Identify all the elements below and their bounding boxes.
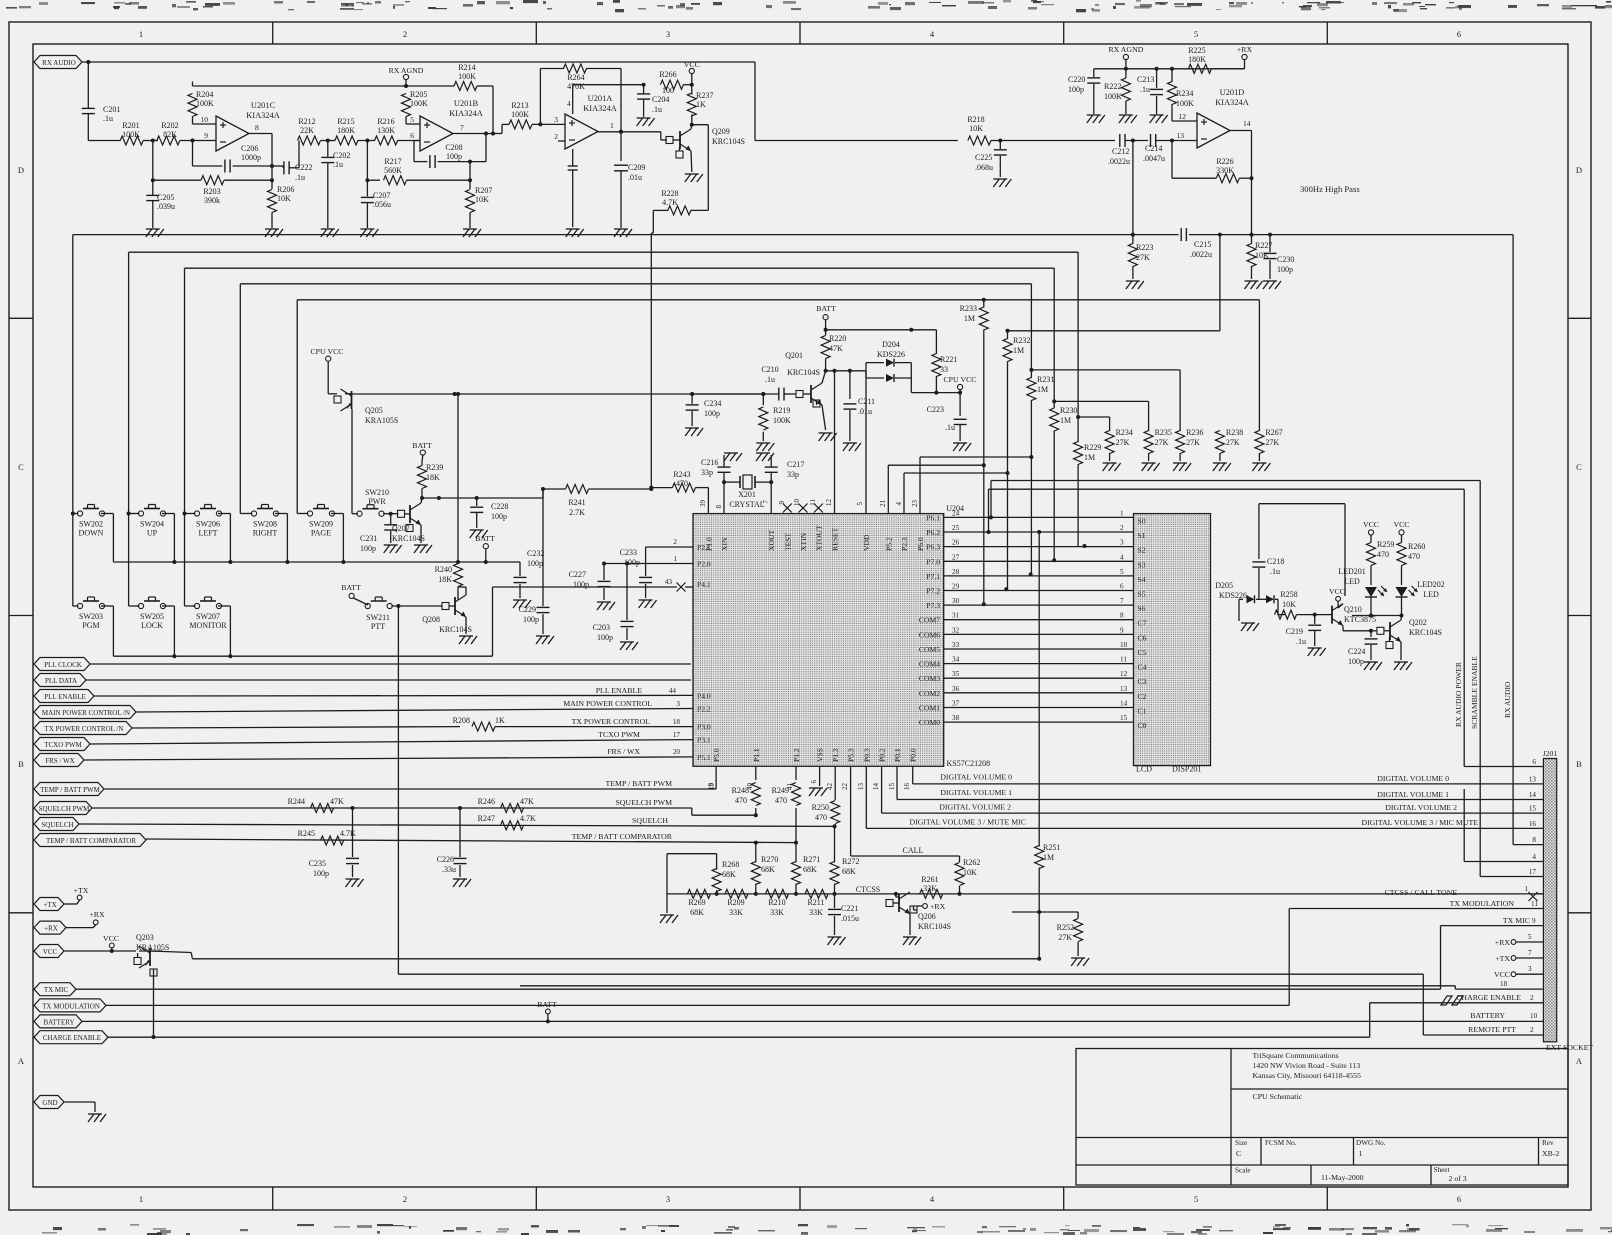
- flag CHARGE ENABLE: [34, 1031, 1370, 1044]
- wire feedback top U201C: [193, 85, 455, 87]
- pin labels bottom cpu: [841, 783, 911, 791]
- svg-text:P0.0: P0.0: [909, 748, 918, 762]
- svg-text:COM4: COM4: [919, 660, 940, 669]
- resistor R215: [335, 117, 358, 145]
- svg-text:SW206: SW206: [196, 520, 220, 529]
- svg-text:C4: C4: [1138, 663, 1147, 672]
- ground C205: [146, 229, 164, 237]
- wire ctcss to pin1: [1385, 885, 1544, 901]
- flag FRS / WX: [34, 754, 84, 767]
- svg-text:P0.1: P0.1: [893, 748, 902, 762]
- wire R239 row: [422, 496, 543, 500]
- svg-text:10: 10: [1120, 641, 1128, 649]
- svg-text:FRS / WX: FRS / WX: [607, 747, 640, 756]
- svg-text:SW210: SW210: [365, 488, 389, 497]
- svg-text:R221: R221: [940, 355, 957, 364]
- resistor R231 1M: [1027, 370, 1054, 576]
- svg-text:SW203: SW203: [79, 612, 103, 621]
- svg-text:6: 6: [1532, 758, 1536, 766]
- pin J201-13: [1529, 775, 1537, 783]
- svg-text:22K: 22K: [300, 126, 314, 135]
- svg-text:C0: C0: [1138, 721, 1147, 730]
- ground R207: [463, 229, 481, 237]
- svg-text:C227: C227: [569, 570, 586, 579]
- svg-text:R234: R234: [1116, 428, 1133, 437]
- svg-text:29: 29: [952, 583, 960, 591]
- resistor R201: [120, 121, 143, 145]
- capacitor C220: [1068, 69, 1105, 123]
- text RX AUDIO POWER vert: [1454, 661, 1463, 727]
- svg-text:68K: 68K: [761, 865, 775, 874]
- capacitor C211: [843, 371, 875, 451]
- op-amp U201A gnd pin: [566, 149, 584, 237]
- ground Q207: [414, 525, 432, 553]
- wire remote ptt right: [1468, 1025, 1534, 1034]
- junction R251 R252: [1012, 912, 1078, 961]
- capacitor C210: [761, 365, 786, 401]
- svg-text:R259: R259: [1377, 540, 1394, 549]
- wire SQUELCH PWM: [92, 798, 758, 817]
- svg-text:.01u: .01u: [628, 173, 642, 182]
- svg-text:TriSquare Communications: TriSquare Communications: [1253, 1051, 1339, 1060]
- svg-text:RX AUDIO POWER: RX AUDIO POWER: [1454, 661, 1463, 727]
- svg-text:27K: 27K: [1136, 253, 1150, 262]
- svg-text:RX AUDIO: RX AUDIO: [1503, 681, 1512, 718]
- resistor R272: [830, 826, 859, 894]
- svg-text:C210: C210: [761, 365, 778, 374]
- svg-text:SW211: SW211: [366, 613, 390, 622]
- svg-text:XB-2: XB-2: [1542, 1149, 1559, 1158]
- svg-text:SW208: SW208: [253, 520, 277, 529]
- stub +RX pin5: [1495, 933, 1544, 947]
- flag MAIN POWER CONTROL /N: [34, 706, 136, 719]
- wire bus A +TX net: [73, 235, 1133, 606]
- svg-text:CPU VCC: CPU VCC: [310, 347, 343, 356]
- svg-text:2: 2: [673, 538, 677, 546]
- wire digital volume buses: [866, 766, 1543, 828]
- wire: [358, 139, 375, 143]
- svg-text:16: 16: [903, 783, 911, 791]
- power CPU VCC 2: [310, 347, 343, 394]
- svg-text:3: 3: [1120, 539, 1124, 547]
- svg-text:Sheet: Sheet: [1434, 1166, 1450, 1174]
- svg-text:8: 8: [715, 505, 723, 509]
- svg-text:R239: R239: [426, 463, 443, 472]
- svg-text:XTIN: XTIN: [799, 532, 808, 551]
- svg-text:Kansas City, Missouri 64118-45: Kansas City, Missouri 64118-4555: [1253, 1071, 1361, 1080]
- wire pin4: [1464, 789, 1543, 862]
- svg-text:12: 12: [825, 499, 833, 507]
- wire Q205 collector down: [352, 409, 358, 514]
- svg-text:.0047u: .0047u: [1143, 154, 1165, 163]
- svg-text:VCC: VCC: [684, 60, 700, 69]
- svg-text:18: 18: [673, 718, 681, 726]
- resistor R243: [651, 470, 708, 492]
- svg-text:TX POWER CONTROL: TX POWER CONTROL: [572, 717, 651, 726]
- svg-text:4: 4: [895, 502, 903, 506]
- svg-text:C203: C203: [593, 623, 610, 632]
- wire R241 jog: [542, 489, 544, 498]
- svg-text:+TX: +TX: [1495, 954, 1510, 963]
- svg-text:VCC: VCC: [1363, 520, 1379, 529]
- svg-text:Q205: Q205: [365, 406, 383, 415]
- wire RX AGND node: [389, 66, 424, 86]
- svg-text:.1u: .1u: [1270, 567, 1280, 576]
- svg-text:GND: GND: [42, 1099, 57, 1107]
- svg-text:C218: C218: [1267, 557, 1284, 566]
- svg-text:1: 1: [1359, 1149, 1363, 1158]
- svg-text:1M: 1M: [1043, 853, 1054, 862]
- svg-text:11: 11: [1531, 900, 1538, 908]
- svg-text:VSS: VSS: [816, 748, 825, 762]
- svg-text:S5: S5: [1138, 590, 1146, 599]
- resistor R206: [268, 180, 295, 228]
- svg-text:100p: 100p: [1277, 265, 1293, 274]
- svg-text:.056u: .056u: [373, 200, 391, 209]
- svg-text:Q202: Q202: [1409, 618, 1427, 627]
- svg-text:4.7K: 4.7K: [340, 829, 356, 838]
- resistor R247: [478, 814, 536, 830]
- wire scramble vertical: [1480, 481, 1543, 877]
- svg-text:C225: C225: [975, 153, 992, 162]
- svg-text:FCSM No.: FCSM No.: [1265, 1139, 1297, 1147]
- transistor Q202 KRC104S: [1386, 616, 1442, 649]
- wire pin18 line: [520, 986, 1543, 989]
- svg-text:7: 7: [460, 123, 464, 132]
- svg-text:TX MIC: TX MIC: [1503, 916, 1530, 925]
- svg-text:R203: R203: [203, 187, 220, 196]
- capacitor C219: [1286, 615, 1326, 656]
- svg-text:TX MODULATION: TX MODULATION: [42, 1002, 100, 1010]
- wire bus C: [185, 268, 1149, 606]
- wire tx modulation right: [1289, 899, 1543, 1005]
- power BATT: [816, 304, 836, 332]
- svg-text:10: 10: [1530, 1012, 1538, 1020]
- svg-text:17: 17: [673, 731, 681, 739]
- ground Q202: [1394, 642, 1412, 670]
- svg-text:.1u: .1u: [295, 173, 305, 182]
- svg-text:1K: 1K: [495, 716, 505, 725]
- svg-text:VCC: VCC: [1329, 587, 1345, 596]
- svg-text:8: 8: [1120, 612, 1124, 620]
- svg-text:PLL ENABLE: PLL ENABLE: [44, 693, 86, 701]
- svg-text:CPU VCC: CPU VCC: [943, 375, 976, 384]
- svg-text:P7.0: P7.0: [926, 557, 940, 566]
- capacitor C222: [284, 141, 312, 183]
- svg-text:Q209: Q209: [712, 127, 730, 136]
- resistor R218: [967, 115, 991, 145]
- svg-text:68K: 68K: [803, 865, 817, 874]
- resistor R252: [1057, 912, 1089, 966]
- transistor Q207 KRC104S: [392, 503, 425, 543]
- wire CALL: [851, 766, 960, 856]
- svg-text:C1: C1: [1138, 707, 1147, 716]
- pin RESET: [825, 499, 833, 507]
- svg-text:2.7K: 2.7K: [569, 508, 585, 517]
- switch SW209 PAGE: [307, 505, 334, 538]
- svg-text:DIGITAL VOLUME 2: DIGITAL VOLUME 2: [939, 803, 1011, 812]
- svg-text:KRC104S: KRC104S: [712, 137, 745, 146]
- svg-text:P2.0: P2.0: [697, 560, 711, 569]
- pin J201-6: [1532, 758, 1536, 766]
- svg-text:100K: 100K: [410, 99, 428, 108]
- svg-text:P7.2: P7.2: [926, 587, 940, 596]
- svg-text:COM6: COM6: [919, 630, 940, 639]
- power CPU VCC: [943, 375, 976, 393]
- svg-text:1M: 1M: [1060, 416, 1071, 425]
- svg-text:LED202: LED202: [1417, 580, 1445, 589]
- flag TX POWER CONTROL /N: [34, 722, 132, 735]
- svg-text:TX POWER CONTROL /N: TX POWER CONTROL /N: [45, 725, 124, 733]
- capacitor C201: [82, 62, 121, 141]
- svg-text:9: 9: [1532, 917, 1536, 925]
- wire input node: [88, 140, 120, 142]
- svg-text:R251: R251: [1043, 843, 1060, 852]
- text digital volume labels left: [909, 773, 1026, 827]
- svg-text:SW207: SW207: [196, 612, 220, 621]
- svg-text:Q206: Q206: [918, 912, 936, 921]
- feedback R226: [1172, 141, 1254, 183]
- transistor Q208 KRC104S: [422, 587, 472, 634]
- power BATT R239: [412, 441, 432, 462]
- wire PLL CLOCK: [90, 663, 691, 665]
- svg-text:.068u: .068u: [975, 163, 993, 172]
- resistor R264: [564, 64, 587, 91]
- svg-text:R269: R269: [688, 898, 705, 907]
- svg-text:C6: C6: [1138, 633, 1147, 642]
- svg-text:C231: C231: [360, 534, 377, 543]
- svg-text:VCC: VCC: [1494, 970, 1510, 979]
- capacitor C215: [1133, 228, 1513, 259]
- svg-text:100: 100: [662, 86, 674, 95]
- wire charge enable drop: [152, 976, 156, 1039]
- svg-text:P2.3: P2.3: [900, 537, 909, 551]
- svg-text:.1u: .1u: [1296, 637, 1306, 646]
- svg-text:390k: 390k: [204, 196, 220, 205]
- ground VSS: [809, 766, 827, 796]
- pin P5.2 num: [879, 500, 887, 508]
- wire bus B: [129, 252, 1110, 606]
- flag PLL ENABLE: [34, 690, 94, 703]
- wire: [143, 139, 158, 143]
- svg-text:42: 42: [826, 783, 834, 791]
- wire Q201 base node: [824, 369, 866, 373]
- wire TCXO PWM: [90, 730, 693, 744]
- svg-text:CRYSTAL: CRYSTAL: [729, 500, 764, 509]
- wire C218 top to Q210: [1344, 504, 1346, 596]
- resistor R234a: [1168, 69, 1195, 121]
- svg-text:C5: C5: [1138, 648, 1147, 657]
- svg-text:470: 470: [1377, 550, 1389, 559]
- svg-text:CALL: CALL: [903, 846, 924, 855]
- svg-text:100p: 100p: [360, 544, 376, 553]
- svg-text:D: D: [1576, 165, 1582, 175]
- svg-text:1: 1: [1120, 509, 1124, 517]
- svg-text:470: 470: [1408, 552, 1420, 561]
- svg-text:100K: 100K: [458, 72, 476, 81]
- flag BATTERY: [34, 1015, 1543, 1028]
- flag PLL DATA: [34, 674, 86, 687]
- svg-text:CTCSS: CTCSS: [856, 885, 880, 894]
- flag SQUELCH PWM: [34, 802, 92, 815]
- resistor R251: [1035, 530, 1061, 914]
- wire to U201C inv: [180, 131, 216, 143]
- capacitor C217: [756, 453, 804, 482]
- svg-text:R216: R216: [377, 117, 394, 126]
- flag GND: [34, 1096, 106, 1123]
- svg-text:R225: R225: [1188, 46, 1205, 55]
- svg-text:DIGITAL VOLUME 2: DIGITAL VOLUME 2: [1385, 803, 1457, 812]
- capacitor C227: [569, 564, 615, 611]
- wire tx mic right: [1441, 916, 1544, 989]
- LCD DISP201: [1134, 514, 1211, 774]
- pin J201-16: [1529, 820, 1537, 828]
- wire pin2 stub: [554, 132, 565, 141]
- svg-text:U201A: U201A: [588, 94, 613, 103]
- svg-text:RIGHT: RIGHT: [253, 529, 278, 538]
- svg-text:17: 17: [1529, 868, 1537, 876]
- svg-text:R206: R206: [277, 185, 294, 194]
- svg-text:R271: R271: [803, 855, 820, 864]
- ground Q201 emitter: [819, 405, 837, 441]
- svg-text:R219: R219: [773, 406, 790, 415]
- svg-text:LEFT: LEFT: [198, 529, 217, 538]
- wire R203 row: [151, 141, 201, 183]
- svg-text:C208: C208: [445, 143, 462, 152]
- svg-text:100K: 100K: [511, 110, 529, 119]
- svg-text:C216: C216: [701, 458, 718, 467]
- svg-text:1M: 1M: [1084, 453, 1095, 462]
- svg-text:C207: C207: [373, 191, 390, 200]
- svg-text:100p: 100p: [446, 152, 462, 161]
- svg-text:C3: C3: [1138, 677, 1147, 686]
- pin XTIN nc: [793, 499, 808, 513]
- pin J201-15: [1529, 805, 1537, 813]
- svg-text:P0.3: P0.3: [862, 748, 871, 762]
- svg-text:SQUELCH: SQUELCH: [41, 821, 73, 829]
- svg-text:BATTERY: BATTERY: [1470, 1011, 1505, 1020]
- svg-text:Q208: Q208: [422, 615, 440, 624]
- svg-text:S4: S4: [1138, 575, 1146, 584]
- switch SW203 PGM: [77, 597, 104, 630]
- ground C207: [360, 229, 378, 237]
- resistor R250 470: [812, 766, 840, 826]
- svg-text:470: 470: [676, 479, 688, 488]
- wire TEMP BATT PWM: [104, 766, 716, 790]
- svg-text:9: 9: [204, 131, 208, 140]
- svg-text:COM0: COM0: [919, 718, 940, 727]
- svg-text:6: 6: [810, 780, 818, 784]
- capacitor C224: [1348, 631, 1382, 670]
- svg-text:68K: 68K: [722, 870, 736, 879]
- svg-text:+RX: +RX: [1495, 938, 1511, 947]
- svg-text:C212: C212: [1112, 147, 1129, 156]
- svg-text:13: 13: [857, 783, 865, 791]
- wire CTCSS right vertical: [1464, 489, 1543, 766]
- flag TEMP / BATT PWM: [34, 783, 104, 796]
- ground Q206: [903, 914, 921, 945]
- svg-text:SQUELCH PWM: SQUELCH PWM: [39, 805, 91, 813]
- wire MAIN POWER CONTROL: [136, 699, 693, 712]
- resistor R221: [932, 330, 957, 393]
- svg-text:C220: C220: [1068, 75, 1085, 84]
- resistor R212: [298, 117, 321, 145]
- svg-text:P0.2: P0.2: [878, 748, 887, 762]
- svg-text:DOWN: DOWN: [79, 529, 104, 538]
- svg-text:2: 2: [403, 29, 407, 39]
- svg-text:100p: 100p: [523, 615, 539, 624]
- resistor R237: [687, 85, 713, 124]
- svg-text:R228: R228: [661, 189, 678, 198]
- wire SW211 to Q208: [391, 605, 438, 607]
- svg-text:R261: R261: [921, 875, 938, 884]
- svg-text:Q207: Q207: [392, 524, 410, 533]
- svg-text:S3: S3: [1138, 560, 1146, 569]
- svg-text:35: 35: [952, 670, 960, 678]
- svg-text:C206: C206: [241, 144, 258, 153]
- svg-text:R260: R260: [1408, 542, 1425, 551]
- pin XIN label: [715, 505, 723, 509]
- resistor R249 470: [772, 766, 801, 842]
- svg-text:R267: R267: [1265, 428, 1282, 437]
- resistor R229 1M: [1074, 417, 1102, 547]
- svg-text:100K: 100K: [1104, 92, 1122, 101]
- svg-text:330K: 330K: [1216, 166, 1234, 175]
- svg-text:33p: 33p: [701, 468, 713, 477]
- wire U201D out: [1230, 131, 1252, 235]
- svg-text:100p: 100p: [1068, 85, 1084, 94]
- stub VCC pin3: [1494, 965, 1543, 979]
- wire: [407, 178, 473, 182]
- wire C212 node down: [1131, 141, 1135, 237]
- svg-text:.1u: .1u: [765, 375, 775, 384]
- text RX AUDIO vert: [1503, 681, 1512, 718]
- svg-text:S6: S6: [1138, 604, 1146, 613]
- svg-text:2 of 3: 2 of 3: [1449, 1174, 1467, 1183]
- svg-text:470K: 470K: [567, 82, 585, 91]
- svg-text:R243: R243: [673, 470, 690, 479]
- svg-text:PLL ENABLE: PLL ENABLE: [596, 686, 643, 695]
- svg-text:KRC104S: KRC104S: [1409, 628, 1442, 637]
- resistor R230 1M: [1050, 401, 1078, 561]
- resistor R262: [955, 856, 980, 896]
- resistor R236 27K: [1173, 428, 1203, 471]
- svg-text:68K: 68K: [690, 908, 704, 917]
- svg-text:14: 14: [1120, 700, 1128, 708]
- svg-text:S1: S1: [1138, 531, 1146, 540]
- svg-text:KS57C21208: KS57C21208: [947, 759, 991, 768]
- svg-text:.01u: .01u: [858, 407, 872, 416]
- svg-text:BATT: BATT: [341, 583, 361, 592]
- svg-text:TX MIC: TX MIC: [44, 986, 69, 994]
- capacitor C202: [321, 141, 350, 229]
- svg-text:R250: R250: [812, 803, 829, 812]
- op-amp U201A power pin4: [567, 85, 644, 114]
- svg-text:TCXO PWM: TCXO PWM: [598, 730, 640, 739]
- svg-text:5: 5: [856, 502, 864, 506]
- svg-text:SW202: SW202: [79, 520, 103, 529]
- svg-text:REMOTE PTT: REMOTE PTT: [1468, 1025, 1516, 1034]
- resistor R260: [1397, 542, 1425, 585]
- feedback wire C206: [193, 141, 275, 173]
- svg-text:10K: 10K: [963, 868, 977, 877]
- junction R233 P7.3: [982, 602, 986, 606]
- svg-text:Q201: Q201: [785, 351, 803, 360]
- wire VDD vertical: [865, 371, 867, 514]
- ground Q209: [685, 151, 703, 182]
- svg-text:9: 9: [778, 501, 786, 505]
- pin J201-14: [1529, 791, 1537, 799]
